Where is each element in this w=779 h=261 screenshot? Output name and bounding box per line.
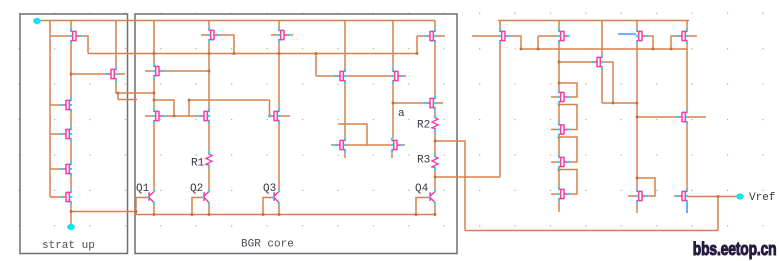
wire MR1 drain [499,21,501,30]
port VDD input [33,18,41,24]
wire M2 gate stub [145,115,154,117]
wire MR3 drain [601,21,603,56]
wire MR3 gate elbow [602,62,613,103]
transistor M3 [208,28,220,43]
wire R3 to Q4 [434,169,436,191]
wire M6 source to M5 drain [278,43,280,110]
wire Ms2 bulk line [71,73,107,75]
transistor MR5 [676,29,688,44]
wire MR6 bulk line [637,116,678,118]
wire M2 source to Q1 [153,123,155,191]
wire M7-M8 gate tie [345,75,393,77]
wire MS4 gate stub [551,193,559,195]
wire Q4 base leg [416,198,429,215]
wire right bias line y49 [521,48,687,50]
svg-text:strat up: strat up [42,240,95,252]
wire M11 drain [434,21,436,30]
transistor MR2 [558,29,570,44]
wire Ms5 gate tap [50,168,62,170]
wire MR4 source column [636,43,638,190]
wire VDD rail right [498,20,689,22]
wire R2R3 tap to rail2 [435,141,465,231]
wire M11 gate drop [416,36,418,54]
startup box frame [20,14,128,254]
wire MR7 gate stub [628,195,637,197]
transistor MR6 [676,110,688,125]
wire M1 source / M2 drain [153,78,155,110]
wire MS3 gate stub [551,161,559,163]
transistor Ms2 [105,67,117,82]
wire R1 to Q2 [208,167,210,191]
wire M6 gate stub [271,34,279,36]
wire MR3 to col637 [602,102,637,104]
wire M1 drain column [153,21,155,65]
wire stack bottom stub [558,201,560,213]
wire VDD rail left [37,20,435,22]
wire M6 drain [278,21,280,29]
transistor M4 [198,109,210,124]
wire M11 source to M12 [434,43,436,97]
wire stack seg2 [558,136,560,156]
svg-text:Q4: Q4 [415,183,429,195]
wire MR5 gate stub [687,35,697,37]
wire Ms1 bulk elbow [81,36,89,54]
transistor M10 [391,138,403,153]
transistor M2 [153,109,165,124]
wire M7 bulk line [316,75,336,77]
wire bias drop to M5 [269,100,271,116]
transistor Q1 [147,190,155,205]
wire Q3 base leg [263,198,273,215]
port startup gnd [67,224,75,230]
transistor MR3 [591,55,603,70]
wire blue MR4 gate [618,33,636,35]
wire MR2 gate drop [537,36,539,49]
transistor M9 [334,138,346,153]
wire MS1 gate stub [551,96,559,98]
transistor Ms5 [60,162,72,177]
transistor Ms4 [60,127,72,142]
wire MS4 diode loop [559,170,577,195]
wire junction dots [153,92,156,95]
wire MS2 diode loop [559,105,577,130]
wire MR5 bulk elbow [671,36,678,49]
wire MR2 source [558,43,560,91]
wire M10 source stub [391,152,393,159]
wire Ms2 gate stub [116,73,125,75]
wire Q1 base leg [136,198,148,215]
wire MR6 gate stub [687,116,706,118]
wire stack seg1 [558,104,560,124]
wire Q4 emitter [434,204,436,215]
wire M7 bulk riser [315,54,317,77]
wire M9 bulk stub [331,144,336,146]
wire startup gnd stub [70,212,72,226]
svg-text:Q3: Q3 [263,183,276,195]
wire Ms1 source column [70,43,72,99]
wire MR1 source long [499,43,501,178]
transistor Q2 [202,190,210,205]
wire M1 gate stub [145,70,154,72]
wire Ms1 drain [70,21,72,30]
wire MR8 bulk stub [674,195,678,197]
wire Q1 emitter [153,204,155,215]
wire M2 gate riser [188,100,190,116]
wire M3 bulk elbow [219,35,235,54]
resistor R3 [432,154,438,170]
svg-text:R2: R2 [417,120,430,132]
wire MR2 drain [558,21,560,30]
transistor MR4 [636,29,648,44]
wire M12 source to R2 [434,110,436,117]
transistor M8 [392,69,404,84]
wire MR3 bulk line [559,61,593,63]
transistor MR7 [636,189,648,204]
wire startup inject line [118,99,137,101]
wire M9 diode loop [338,124,367,146]
wire Vref drop [717,197,719,231]
wire M3 source to M4 drain [208,43,210,110]
wire MR4 bulk elbow [647,36,654,49]
wire M5 source to Q3 [278,123,280,191]
transistor MS4 [558,187,570,202]
transistor Ms1 [70,29,82,44]
port Vref output [736,193,744,199]
wire MR7 source stub [636,203,638,214]
transistor M7 [334,69,346,84]
wire M3 drain [208,21,210,29]
BGR core box frame [135,14,457,254]
wire startup bottom to Q1 [71,211,136,213]
svg-text:Q1: Q1 [136,183,150,195]
grid dots [19,13,764,227]
wire Ms4 gate tap [50,133,62,135]
transistor M11 [424,29,436,44]
wire Q2 emitter [208,204,210,215]
wire stack seg3 [558,169,560,188]
wire MR6 source [686,124,688,190]
transistor M12 [424,96,436,111]
transistor MS3 [558,155,570,170]
transistor M5 [268,109,280,124]
wire startup gate-tie vertical [49,21,51,198]
wire M1 bulk to M3 column [164,70,210,72]
wire Q2 base leg [192,198,203,215]
svg-text:R1: R1 [191,158,205,170]
transistor MR1 [499,29,511,44]
wire M12 right stub [435,102,443,104]
wire M5 gate stub [279,115,290,117]
wire M7 drain [344,21,346,70]
wire M2 gate line to M4 [164,115,201,117]
svg-text:a: a [398,108,405,120]
transistor M6 [278,28,290,43]
wire M3 gate stub [201,34,209,36]
wire Ms6 gate tap [50,196,62,198]
wire Q3 emitter [278,204,280,215]
wire Ms4-Ms5 link [70,141,72,163]
wire MS3 diode loop [559,137,577,162]
wire MS1 diode loop [559,83,577,97]
wire M6 bulk stub [289,34,294,36]
wire MR7 diode loop [637,178,655,196]
wire Vref line [687,196,740,198]
wire Ms6 source [70,204,72,212]
transistor Q4 [428,190,436,205]
wire M9 source stub [344,152,346,159]
wire MR5 drain [686,21,688,30]
resistor R2 [432,115,438,131]
wire blue MR8 source [686,203,688,214]
wire M4 source to R1 [208,123,210,153]
wire MR1 bulk elbow [510,36,522,49]
svg-text:bbs.eetop.cn: bbs.eetop.cn [693,239,777,259]
wire bias line y100 [189,99,270,101]
transistor M1 [153,64,165,79]
wire Ms5-Ms6 link [70,176,72,191]
wire bottom return rail [465,230,718,232]
wire M8 source to M10 [392,83,394,139]
wire Ms3 gate tap [50,104,62,106]
svg-text:R3: R3 [417,155,430,167]
wire node line y103 [393,102,425,104]
wire M11 gate wire [417,35,425,37]
wire M7 source to M9 [344,83,346,139]
wire R2 to R3 [434,130,436,155]
wire M8 drain [392,21,394,70]
wire MR4 drain [636,21,638,30]
wire MR3 source [601,69,603,104]
svg-text:BGR core: BGR core [241,239,294,251]
wire M8 bulk stub [403,75,407,77]
wire Ms3-Ms4 link [70,112,72,128]
wire M9-M10 gate tie [345,144,392,146]
wire MS2 gate stub [551,129,559,131]
transistor MS1 [558,90,570,105]
wire MR2 gate elbow [538,35,559,37]
transistor MS2 [558,122,570,137]
wire MR1 gate stub [472,35,500,37]
transistor Ms3 [60,98,72,113]
transistor MR8 [676,189,688,204]
wire Ms1 gate [50,35,71,37]
wire M2 diode elbow [154,100,174,116]
wire M11 right stub [435,35,445,37]
resistor R1 [206,151,212,167]
svg-text:Vref: Vref [749,192,775,204]
transistor Ms6 [60,190,72,205]
wire node a feedback [435,176,500,178]
wire long bias line y53 [88,53,417,55]
wire M10 bulk stub [402,144,406,146]
wire MR5 source [686,43,688,111]
wire gnd rail BGR [136,214,435,216]
wire Ms2 source elbow [116,81,154,94]
svg-text:Q2: Q2 [190,183,203,195]
transistor Q3 [272,190,280,205]
wire Ms2 drain [115,21,117,68]
wire startup inject drop [117,93,119,100]
